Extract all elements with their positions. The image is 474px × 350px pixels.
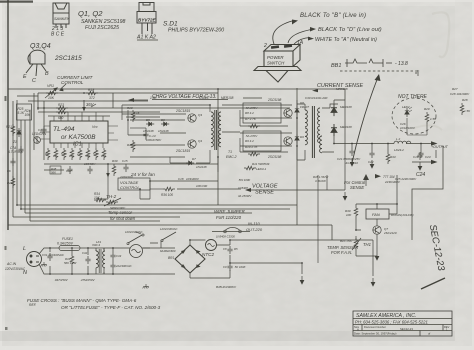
- wires output node: [330, 100, 436, 190]
- wire to bridge: [143, 240, 175, 248]
- left margin specks: [5, 96, 7, 101]
- resistor R17: [102, 148, 106, 160]
- ground under C19: [418, 162, 422, 170]
- resistor R31: [70, 254, 74, 266]
- transistor Q2 power: [284, 137, 292, 145]
- capacitor C21: [349, 148, 354, 156]
- resistor R3: [62, 148, 66, 160]
- transistor package Q1/Q2 TO-220 drawing: [53, 3, 69, 28]
- resistor R12: [244, 166, 256, 170]
- diode D6: [161, 122, 169, 126]
- power switch 3D drawing: [254, 45, 301, 83]
- voltage control box: [118, 178, 150, 190]
- resistor box R38: [50, 166, 61, 174]
- transistor Q7: [373, 226, 381, 234]
- potentiometer VR1: [46, 91, 58, 95]
- rectifier diode SD1a: [331, 104, 337, 116]
- thermistor TH1: [354, 238, 358, 250]
- transformer T1 windings: [211, 112, 213, 129]
- fan box FAN: [366, 209, 389, 219]
- resistor R34: [94, 198, 106, 202]
- underline stroke for SEC-12-23: [421, 278, 445, 289]
- resistor R22: [56, 110, 68, 114]
- ground slash above note: [143, 284, 149, 288]
- IC pin stubs top: [40, 112, 118, 148]
- thermistor TH2 symbol: [106, 200, 118, 204]
- handwritten SEC-12-23 rotated: [427, 224, 447, 273]
- driver row wires: [222, 98, 297, 160]
- LED green: [34, 137, 41, 144]
- wire top second: [38, 93, 218, 110]
- capacitor C16 100/50V: [87, 166, 92, 174]
- rectifier diode SD1b: [331, 124, 337, 136]
- wire bottom bus rows: [17, 204, 297, 206]
- resistor box R25/R24: [17, 104, 32, 120]
- fuse F1: [59, 246, 80, 251]
- relay contact to 230V: [162, 232, 176, 240]
- resistor R33: [386, 152, 390, 164]
- resistor R6: [86, 148, 90, 160]
- transistor Q5: [188, 114, 196, 122]
- resistor R1: [46, 148, 50, 160]
- vertical feedback wires: [16, 100, 18, 205]
- transistor Q6: [188, 140, 196, 148]
- wire arrows from switch to labels: [273, 21, 314, 44]
- capacitor C32: [85, 256, 90, 264]
- capacitor C9: [227, 263, 232, 271]
- wires AC top and bottom: [39, 248, 175, 274]
- dc bus wires right: [215, 240, 373, 278]
- resistor R18 on top rail: [86, 91, 98, 95]
- capacitor C17: [67, 166, 72, 174]
- long curved arrow from current sense up to dashed line: [352, 77, 378, 163]
- ground under C22: [370, 160, 374, 168]
- IC U1 TL-494 box: [50, 121, 108, 143]
- mid drive stage wires: [122, 105, 218, 172]
- resistor R21: [11, 124, 15, 136]
- jumper drawing: [212, 231, 250, 233]
- resistor R20 left column: [11, 176, 15, 188]
- resistor R30: [354, 206, 358, 218]
- top-left corner scan mark: [0, 1, 33, 3]
- arrow down node: [107, 164, 109, 176]
- resistor R4: [70, 148, 74, 160]
- diode D9 on bus: [295, 134, 299, 143]
- wire outer bottom: [8, 225, 332, 240]
- resistor R36: [163, 187, 175, 191]
- ground slash at socket: [41, 262, 47, 266]
- title block frame: [353, 311, 452, 336]
- fan circuit wires: [356, 175, 397, 256]
- capacitor C22: [369, 150, 374, 158]
- wire return loop right: [412, 146, 443, 240]
- diode D8 on bus: [295, 106, 299, 115]
- faint scan smudge top right: [432, 12, 449, 57]
- wire rows above IC: [38, 108, 290, 116]
- ground under sense column: [343, 192, 347, 200]
- driver block Q2 row: [243, 131, 281, 151]
- capacitors CY: [110, 252, 115, 260]
- driver block Q1 row: [243, 103, 281, 123]
- switch terminals: [271, 45, 279, 49]
- ground at C21: [350, 158, 354, 166]
- capacitor C7: [18, 146, 23, 154]
- ground arrow right: [371, 278, 375, 286]
- capacitor C6 left column: [10, 158, 15, 166]
- NTC1 circle: [130, 245, 143, 258]
- resistor R5: [78, 148, 82, 160]
- wires mid rows: [44, 164, 241, 199]
- NTC2 circle: [206, 240, 217, 251]
- ground arrow mid: [300, 276, 304, 284]
- AC inlet socket: [27, 252, 42, 267]
- line filter LF1: [96, 251, 98, 268]
- resistor R2: [54, 148, 58, 160]
- ground under fan transistor: [375, 252, 379, 260]
- diode package SD1 drawing: [137, 3, 156, 35]
- NOT THERE dashed circle: [392, 98, 436, 134]
- arrow second output: [431, 160, 438, 164]
- choke L2: [394, 141, 411, 143]
- zener diode ZD1: [17, 128, 21, 137]
- transistor package Q3/Q4 TO-92 drawing: [26, 50, 46, 76]
- wire charge-voltage rail: [17, 93, 148, 108]
- capacitor C27 with labels 777 104: [375, 174, 381, 178]
- diode D7: [186, 161, 194, 165]
- wire top outer: [8, 89, 345, 100]
- capacitor C8: [227, 246, 232, 254]
- sense rail wire: [249, 175, 345, 263]
- left sheet border line: [7, 0, 9, 230]
- resistor R13: [131, 110, 135, 122]
- capacitor C15: [123, 164, 128, 172]
- resistor R29 inside circle: [425, 112, 429, 124]
- resistor R15: [131, 140, 135, 152]
- resistor R16: [94, 148, 98, 160]
- capacitor C13: [143, 131, 148, 139]
- diode D5: [146, 122, 154, 126]
- bridge rectifier BR1: [175, 245, 205, 273]
- outer control box wires: [8, 88, 345, 240]
- capacitor C23: [418, 150, 423, 158]
- transistor Q1 power: [284, 109, 292, 117]
- output arrow +OUTPUT: [431, 141, 438, 146]
- resistor R23: [56, 106, 68, 110]
- capacitor CX1: [47, 253, 52, 261]
- capacitor C3: [41, 126, 46, 134]
- capacitor C19: [417, 152, 422, 160]
- resistor R39: [112, 164, 116, 176]
- main transformer T2: [297, 104, 334, 160]
